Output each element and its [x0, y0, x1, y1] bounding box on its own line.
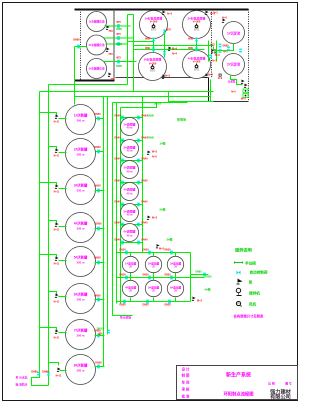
svg-text:至堆场: 至堆场 — [177, 117, 186, 122]
svg-text:DN40: DN40 — [114, 201, 121, 204]
rail r2 — [121, 140, 143, 142]
svg-text:P: P — [237, 302, 239, 306]
tank D6 — [167, 280, 183, 296]
svg-text:DN100: DN100 — [154, 103, 162, 106]
svg-text:DN100: DN100 — [97, 328, 105, 331]
col lines — [194, 366, 196, 400]
riser valve W1 — [37, 372, 40, 376]
svg-text:300 m: 300 m — [77, 261, 85, 265]
svg-text:比 例: 比 例 — [268, 381, 275, 386]
svg-text:Φ89: Φ89 — [188, 37, 194, 41]
grid header mid — [117, 277, 205, 279]
tank D1 — [122, 256, 138, 272]
svg-text:6000: 6000 — [150, 70, 156, 73]
rail r1 — [121, 117, 143, 119]
grid valves top — [125, 251, 128, 255]
svg-text:40 m: 40 m — [127, 149, 134, 153]
svg-text:DN65: DN65 — [116, 44, 123, 46]
svg-text:有限公司: 有限公司 — [270, 393, 291, 401]
svg-text:1#水解酸化池: 1#水解酸化池 — [89, 20, 105, 24]
svg-text:审 核: 审 核 — [182, 387, 190, 392]
svg-text:N=11: N=11 — [56, 375, 62, 378]
svg-text:自动控制阀: 自动控制阀 — [250, 270, 268, 275]
svg-text:7#厌氧罐: 7#厌氧罐 — [74, 328, 88, 333]
svg-text:3#调理罐: 3#调理罐 — [124, 165, 136, 170]
tank C4 — [121, 183, 139, 201]
svg-text:300 m: 300 m — [77, 119, 85, 123]
grid valves mid — [125, 276, 128, 280]
sump wall riser — [210, 80, 212, 102]
tank B2 — [49, 139, 104, 169]
svg-text:V=300: V=300 — [193, 60, 201, 64]
pipe row header A — [128, 41, 154, 43]
settling tank S1 — [223, 22, 245, 44]
svg-text:DN50: DN50 — [119, 249, 126, 252]
svg-text:DN80: DN80 — [148, 137, 155, 140]
tank A2 level flag — [205, 11, 209, 15]
svg-text:40 m: 40 m — [127, 213, 134, 217]
tank B2 right stub — [96, 151, 104, 153]
valve V-S1 — [227, 47, 230, 51]
tank B3 — [40, 175, 105, 205]
valve V-A6 — [195, 47, 198, 51]
svg-text:DN40: DN40 — [141, 158, 148, 161]
svg-text:750: 750 — [108, 29, 113, 33]
svg-text:DN65: DN65 — [116, 29, 123, 31]
grid valves bottom — [123, 300, 126, 304]
tank T2 outlet upper — [104, 37, 134, 39]
tank T1 — [87, 12, 107, 32]
central riser — [164, 30, 166, 58]
left building dotted west wall — [80, 10, 82, 80]
svg-text:750: 750 — [108, 52, 113, 56]
end-of-line marks — [107, 330, 110, 334]
legend blower — [236, 301, 240, 305]
tank T2 inlet from west — [75, 46, 87, 48]
tank D3 — [167, 256, 183, 272]
middle divider — [215, 386, 264, 388]
legend mixer — [236, 288, 240, 292]
svg-text:N=2: N=2 — [218, 77, 223, 80]
svg-text:40 m: 40 m — [127, 170, 134, 174]
svg-text:750: 750 — [110, 77, 115, 81]
pipe S stub — [213, 47, 215, 51]
svg-text:图 号: 图 号 — [285, 381, 292, 386]
header pipes between rows — [128, 30, 214, 58]
transfer leader — [169, 110, 175, 118]
svg-text:泵: 泵 — [249, 280, 253, 285]
valve V-A3 — [163, 30, 166, 34]
svg-text:300 m: 300 m — [77, 298, 85, 302]
right building lower floor — [209, 101, 249, 103]
svg-text:DN50: DN50 — [95, 362, 102, 365]
aerobic tank A2 — [183, 11, 211, 39]
pipe row header B — [134, 49, 205, 51]
pump PC2 leader — [151, 210, 157, 216]
tank T2 valves — [117, 36, 120, 40]
v2 cap tick — [134, 61, 137, 63]
rail r6 — [121, 224, 143, 226]
wire header right drop — [169, 92, 214, 102]
svg-text:车 间: 车 间 — [182, 380, 190, 385]
svg-text:40 m: 40 m — [127, 234, 134, 238]
transfer pit riser east — [216, 41, 218, 62]
tank T3 pump — [108, 73, 112, 77]
left building east wall — [113, 10, 115, 80]
svg-text:M=3: M=3 — [152, 217, 158, 220]
valve V-S2 — [239, 49, 242, 53]
svg-text:N=3: N=3 — [152, 156, 157, 159]
grid right riser — [190, 253, 192, 302]
legend manual valve — [235, 262, 243, 264]
svg-text:M=3: M=3 — [152, 151, 158, 154]
svg-text:至污泥场: 至污泥场 — [120, 316, 131, 320]
tank C3 — [121, 161, 139, 179]
tank B8 — [49, 355, 105, 385]
tank T2 outlet lower — [106, 43, 128, 45]
main left riser 2 — [48, 85, 50, 386]
grid red labels top — [119, 249, 171, 307]
svg-text:N=11: N=11 — [54, 229, 60, 232]
wire T2 feed drop — [74, 47, 76, 105]
svg-text:DN40: DN40 — [114, 239, 121, 242]
svg-text:批 准: 批 准 — [182, 394, 190, 399]
svg-text:V=300: V=300 — [150, 20, 158, 24]
svg-text:新生产系统: 新生产系统 — [226, 372, 251, 379]
tank B6 — [49, 284, 105, 314]
svg-text:N=11: N=11 — [54, 263, 60, 266]
tank T1 valve — [117, 24, 120, 28]
svg-text:N=11: N=11 — [54, 337, 60, 340]
svg-text:M=2: M=2 — [241, 98, 246, 101]
svg-text:DN50: DN50 — [164, 274, 171, 277]
corner flag 2 — [244, 84, 248, 88]
col2 right collector — [142, 97, 144, 253]
right building inner dotted wall — [211, 10, 213, 78]
svg-text:N=11: N=11 — [54, 121, 60, 124]
pit valve b — [219, 49, 222, 53]
drop from A2 to A4 — [196, 38, 198, 52]
col2 long risers — [103, 97, 105, 367]
tank S2 piping — [211, 44, 243, 102]
rail labels — [114, 115, 148, 242]
pump P-A1 — [168, 47, 172, 51]
svg-text:Φ89: Φ89 — [188, 46, 194, 50]
svg-text:M=4: M=4 — [172, 47, 178, 51]
svg-text:6000: 6000 — [194, 69, 200, 72]
svg-text:DN50: DN50 — [142, 249, 149, 252]
pump PG1 — [156, 244, 160, 248]
svg-text:DN50: DN50 — [94, 257, 101, 260]
wire header y102 — [113, 102, 188, 104]
svg-text:N=1: N=1 — [213, 12, 218, 15]
pump P-A3 — [214, 49, 218, 53]
svg-text:N=3: N=3 — [167, 12, 172, 16]
svg-text:2#水解酸化池: 2#水解酸化池 — [89, 43, 105, 47]
svg-text:DN50: DN50 — [94, 185, 101, 188]
svg-text:DN50: DN50 — [142, 274, 149, 277]
svg-text:1#沉淀池: 1#沉淀池 — [227, 31, 241, 36]
svg-text:Φ75: Φ75 — [116, 21, 121, 24]
tank A4 flag — [205, 74, 209, 78]
pump PG2 leader — [196, 292, 202, 297]
svg-text:40 m: 40 m — [127, 126, 134, 130]
svg-text:DN50: DN50 — [119, 304, 126, 307]
rail r7 — [121, 242, 143, 244]
grid header top — [117, 252, 191, 254]
pump PC1 leader — [151, 145, 157, 151]
tank T2 pump — [106, 48, 110, 52]
pipe S1 drop — [214, 44, 234, 51]
svg-text:300 m: 300 m — [77, 153, 85, 157]
svg-text:DN50: DN50 — [94, 295, 101, 298]
rail valves — [121, 116, 124, 120]
svg-text:6000: 6000 — [151, 29, 157, 32]
main left riser 1 — [32, 92, 49, 386]
svg-text:4#厌氧罐: 4#厌氧罐 — [74, 221, 88, 226]
svg-text:接A: 接A — [98, 332, 102, 336]
tank B4 — [49, 213, 105, 243]
svg-text:300 m: 300 m — [77, 227, 85, 231]
svg-text:DN80: DN80 — [148, 115, 155, 118]
svg-text:手动阀: 手动阀 — [245, 261, 256, 266]
svg-text:N=11: N=11 — [54, 191, 60, 194]
svg-text:图例说明: 图例说明 — [235, 247, 252, 254]
settling tank S2 — [223, 54, 245, 76]
svg-text:M=3: M=3 — [197, 300, 203, 303]
right building floor — [116, 77, 209, 79]
svg-text:设 计: 设 计 — [182, 367, 190, 372]
tank C6 — [121, 224, 139, 242]
svg-text:3#厌氧罐: 3#厌氧罐 — [74, 183, 88, 188]
svg-text:DN40: DN40 — [114, 180, 121, 183]
tank B5 — [40, 247, 105, 277]
right building dotted east wall — [248, 10, 250, 102]
aerobic tank A4 — [183, 51, 211, 79]
tank C5 — [121, 204, 139, 222]
svg-text:300 m: 300 m — [77, 334, 85, 338]
top manifold risers — [133, 15, 135, 92]
grid header bottom — [117, 301, 191, 303]
svg-text:8#厌氧罐: 8#厌氧罐 — [74, 363, 88, 368]
svg-text:3#好氧发酵槽: 3#好氧发酵槽 — [144, 57, 162, 62]
tank B7 — [40, 320, 105, 350]
pump PC1 — [147, 151, 151, 155]
tank A1 level flag — [162, 11, 166, 15]
svg-text:300 m: 300 m — [77, 369, 85, 373]
svg-text:DN50: DN50 — [94, 113, 101, 116]
svg-text:接 消防水: 接 消防水 — [16, 383, 28, 387]
rail r4 — [121, 182, 143, 184]
svg-text:至 污水站: 至 污水站 — [16, 376, 28, 380]
tank T1 outlet pipe — [105, 25, 128, 27]
svg-text:风机: 风机 — [249, 302, 257, 307]
row lines left — [177, 372, 215, 374]
svg-text:Φ75: Φ75 — [210, 44, 215, 47]
legend auto valve — [237, 271, 241, 275]
valve V-A5 — [163, 51, 166, 55]
pit valve a — [219, 44, 222, 48]
tank D2 — [145, 256, 161, 272]
pump PG2 — [192, 297, 196, 301]
v1 cap tick — [128, 25, 131, 27]
svg-text:DN40: DN40 — [114, 222, 121, 225]
manifold rails — [121, 118, 143, 243]
svg-text:N=5: N=5 — [222, 16, 227, 20]
tank B1 — [40, 105, 104, 135]
valve V-A2 — [152, 47, 155, 51]
tank T3 valve — [117, 60, 120, 64]
tank B1 right stub — [96, 118, 104, 120]
right building step wall — [208, 78, 210, 102]
pump PC2 — [147, 216, 151, 220]
tank C1 — [121, 118, 139, 136]
svg-text:6#调理罐: 6#调理罐 — [124, 229, 136, 234]
svg-text:6000: 6000 — [194, 29, 200, 32]
svg-text:DN50: DN50 — [142, 304, 149, 307]
pit valve c — [209, 55, 212, 59]
svg-text:DN50: DN50 — [164, 249, 171, 252]
left building floor — [75, 80, 115, 82]
transfer pit riser west — [208, 41, 210, 62]
aerobic tank A1 — [140, 11, 168, 39]
svg-text:污泥泵: 污泥泵 — [228, 80, 236, 84]
title block frame — [177, 366, 298, 400]
svg-text:6#厌氧罐: 6#厌氧罐 — [74, 292, 88, 297]
tank S1 flag — [222, 19, 226, 23]
svg-text:V=300: V=300 — [193, 20, 201, 24]
drop from A1 to A3 — [153, 38, 155, 53]
svg-text:DN80: DN80 — [31, 371, 38, 374]
svg-text:DN40: DN40 — [114, 115, 121, 118]
svg-text:N=3: N=3 — [208, 73, 213, 77]
svg-text:DN50: DN50 — [95, 223, 102, 226]
svg-text:M=3: M=3 — [159, 248, 165, 251]
corner pump box 1 — [243, 89, 248, 93]
svg-text:300 m: 300 m — [77, 189, 85, 193]
svg-text:DN80: DN80 — [195, 271, 202, 274]
valve V-A1 — [152, 38, 155, 42]
svg-text:3#泵: 3#泵 — [166, 237, 172, 242]
corner flag 1 — [241, 80, 245, 84]
svg-text:4#泵: 4#泵 — [204, 287, 210, 292]
svg-text:N=1: N=1 — [212, 60, 217, 63]
svg-text:环阳制点流程图: 环阳制点流程图 — [223, 391, 254, 398]
tank D5 — [145, 280, 161, 296]
svg-text:Φ75: Φ75 — [116, 33, 121, 36]
svg-text:DN50: DN50 — [164, 304, 171, 307]
svg-text:DN50: DN50 — [94, 146, 101, 149]
tank D4 — [122, 280, 138, 296]
rail r3 — [121, 160, 143, 162]
aerobic tank A3 — [139, 53, 167, 81]
svg-text:制 图: 制 图 — [182, 373, 190, 378]
svg-text:N=11: N=11 — [54, 301, 60, 304]
svg-text:N=11: N=11 — [54, 155, 60, 158]
pump PG1 leader — [159, 241, 164, 246]
legend pump — [238, 279, 243, 285]
row labels — [182, 367, 190, 399]
tank C2 — [121, 140, 139, 158]
svg-text:Φ89: Φ89 — [145, 37, 151, 41]
svg-text:DN40: DN40 — [114, 137, 121, 140]
grid valve side — [203, 273, 206, 277]
svg-text:2#厌氧罐: 2#厌氧罐 — [74, 147, 88, 152]
tank T3 outlet pipe — [104, 61, 134, 63]
sump sensor — [219, 74, 221, 76]
svg-text:Φ89: Φ89 — [145, 46, 151, 50]
svg-text:DN40: DN40 — [141, 201, 148, 204]
riser valve W2 — [47, 372, 50, 376]
svg-text:Φ75: Φ75 — [116, 57, 121, 60]
grid stubs top row — [130, 253, 132, 257]
svg-text:N=3: N=3 — [165, 74, 170, 78]
svg-text:各构筑物尺寸见附表: 各构筑物尺寸见附表 — [233, 314, 264, 319]
tank T2 — [87, 35, 107, 55]
corner pump box 2 — [243, 94, 248, 98]
svg-text:DN40: DN40 — [141, 180, 148, 183]
svg-text:40 m: 40 m — [127, 192, 134, 196]
svg-text:2#沉淀池: 2#沉淀池 — [227, 62, 241, 67]
valve V-A4 — [195, 38, 198, 42]
svg-text:搅拌机: 搅拌机 — [249, 291, 260, 296]
tank A3 flag — [162, 75, 166, 79]
top roof line — [75, 9, 249, 11]
svg-text:1#泵: 1#泵 — [159, 141, 165, 146]
svg-text:4#调理罐: 4#调理罐 — [124, 187, 136, 192]
grid side line — [191, 274, 209, 276]
grid stubs bottom row — [130, 278, 132, 281]
svg-text:DN50: DN50 — [119, 274, 126, 277]
tank T1 pump — [106, 26, 110, 30]
svg-text:M=2: M=2 — [215, 54, 220, 57]
svg-text:5#厌氧罐: 5#厌氧罐 — [74, 255, 88, 260]
svg-text:2#泵: 2#泵 — [159, 207, 165, 212]
svg-text:N=2: N=2 — [231, 91, 236, 94]
wire header y84 — [49, 84, 128, 86]
pipe row header main — [134, 45, 214, 47]
wire header y91 — [40, 91, 214, 93]
wire header y96.5 — [75, 96, 211, 98]
svg-text:N=4: N=4 — [172, 52, 177, 56]
svg-text:DN40: DN40 — [141, 239, 148, 242]
tank T3 — [87, 59, 107, 79]
svg-text:DN40: DN40 — [141, 222, 148, 225]
svg-text:DN40: DN40 — [114, 158, 121, 161]
svg-text:DN65: DN65 — [116, 66, 123, 68]
wire header y106.6 — [121, 103, 157, 108]
svg-text:1#厌氧罐: 1#厌氧罐 — [74, 113, 88, 118]
svg-text:Φ75: Φ75 — [166, 28, 172, 32]
svg-text:DN80: DN80 — [42, 371, 49, 374]
svg-text:DN50: DN50 — [205, 276, 212, 279]
right rows — [264, 380, 298, 382]
pump P-A2 — [211, 49, 215, 53]
pipe S2 drain zigzag — [231, 75, 243, 85]
svg-text:3#水解酸化池: 3#水解酸化池 — [89, 67, 105, 71]
svg-text:DN80: DN80 — [73, 39, 80, 42]
rail r5 — [121, 204, 143, 206]
